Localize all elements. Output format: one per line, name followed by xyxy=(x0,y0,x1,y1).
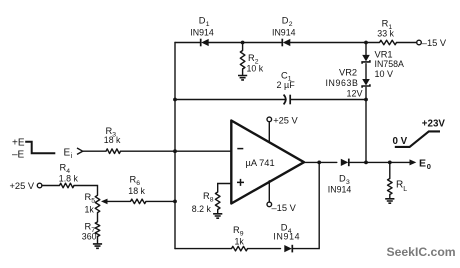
node wiper feedback xyxy=(173,200,177,204)
wire non-inverting input to R8 xyxy=(218,184,232,214)
Ei source arrow xyxy=(77,148,83,154)
svg-text:D: D xyxy=(199,16,206,26)
node summing input xyxy=(173,149,177,153)
svg-text:10 V: 10 V xyxy=(375,69,394,79)
wire wiper to R6 to bus xyxy=(106,200,175,202)
ground below R8 xyxy=(213,214,222,218)
svg-text:1.8 k: 1.8 k xyxy=(59,173,79,183)
svg-text:R: R xyxy=(396,179,403,190)
label +23V xyxy=(422,118,446,129)
resistor R6 18k xyxy=(131,199,147,204)
op-amp plus input sign xyxy=(237,179,244,186)
label Ei xyxy=(64,147,73,160)
svg-text:+25 V: +25 V xyxy=(273,115,298,125)
svg-text:8: 8 xyxy=(210,197,214,204)
svg-text:+23V: +23V xyxy=(422,118,446,129)
label C1 2uF xyxy=(277,70,296,90)
label R5 1k xyxy=(85,192,96,215)
svg-text:18 k: 18 k xyxy=(104,135,121,145)
svg-text:VR1: VR1 xyxy=(375,49,393,59)
ground below RL xyxy=(385,199,394,203)
svg-text:+E: +E xyxy=(12,137,25,148)
wire R1 to -15V xyxy=(366,42,417,44)
resistor R7 360 xyxy=(95,222,100,237)
wire op-amp output line to Eo xyxy=(304,161,412,163)
svg-text:18 k: 18 k xyxy=(128,186,145,196)
label op-amp -15V xyxy=(272,203,297,213)
capacitor C1 2uF xyxy=(284,95,286,105)
label R4 1.8k xyxy=(59,162,79,183)
label VR1 xyxy=(375,49,404,79)
svg-text:2 µF: 2 µF xyxy=(277,80,296,90)
wire op-amp -15V supply lead xyxy=(268,181,270,202)
svg-text:0: 0 xyxy=(427,162,431,171)
ground below R2 xyxy=(238,76,247,80)
svg-text:1k: 1k xyxy=(235,236,245,246)
label +25V left xyxy=(10,181,35,191)
svg-text:8.2 k: 8.2 k xyxy=(192,204,212,214)
label uA741 xyxy=(246,158,275,168)
resistor RL load xyxy=(388,179,393,195)
wire zener column xyxy=(365,43,367,163)
diode D3 1N914 xyxy=(341,159,349,166)
wire Ei input to inverting input xyxy=(83,150,232,152)
svg-text:D: D xyxy=(339,173,346,183)
node R2 top xyxy=(241,41,245,45)
wire left summing bus xyxy=(174,43,176,249)
terminal -15V right of R1 xyxy=(417,40,422,45)
diode D4 1N914 xyxy=(284,245,292,252)
terminal op-amp +25V xyxy=(267,117,272,122)
resistor R8 8.2k xyxy=(215,192,220,210)
label R2 10k xyxy=(247,53,264,74)
svg-text:IN914: IN914 xyxy=(328,184,352,194)
label +E xyxy=(12,137,25,148)
terminal op-amp -15V xyxy=(267,202,272,207)
svg-text:E: E xyxy=(64,147,71,158)
ground below R7 xyxy=(93,244,102,248)
label R7 360 xyxy=(82,222,97,242)
svg-text:–15 V: –15 V xyxy=(272,203,297,213)
diode D1 1N914 xyxy=(201,39,209,46)
label Eo xyxy=(419,157,431,171)
svg-text:IN914: IN914 xyxy=(190,27,214,37)
Eo output arrowhead xyxy=(410,159,417,165)
node RL output xyxy=(388,161,392,165)
label D4 xyxy=(273,223,300,242)
zener diode VR2 1N963B xyxy=(362,79,370,86)
label R9 1k xyxy=(233,225,244,247)
label VR2 xyxy=(326,68,363,99)
svg-text:D: D xyxy=(282,16,289,26)
svg-text:–15 V: –15 V xyxy=(422,38,447,48)
wire top feedback line xyxy=(175,42,366,44)
R5 wiper arrow xyxy=(101,199,108,205)
svg-text:+25 V: +25 V xyxy=(10,181,35,191)
wire bottom feedback R9 D4 xyxy=(175,162,319,248)
node C1 right xyxy=(364,98,368,102)
op-amp minus input sign xyxy=(237,148,243,150)
svg-text:L: L xyxy=(403,186,407,193)
label D3 xyxy=(328,173,352,194)
label -15V right xyxy=(422,38,447,48)
resistor R1 33k xyxy=(380,40,397,45)
label R1 33k xyxy=(377,19,394,39)
resistor R5 1k potentiometer xyxy=(95,195,100,212)
resistor R2 10k xyxy=(240,51,245,70)
svg-text:–E: –E xyxy=(12,149,25,160)
zener diode VR1 1N758A xyxy=(362,55,370,62)
wire R5-R7 column xyxy=(97,213,99,244)
svg-text:E: E xyxy=(419,157,426,169)
resistor R4 1.8k xyxy=(60,183,75,188)
label D1 xyxy=(190,16,214,38)
svg-text:µA 741: µA 741 xyxy=(246,158,275,168)
svg-text:IN914: IN914 xyxy=(272,27,296,37)
diode D2 1N914 xyxy=(283,39,291,46)
label D2 xyxy=(272,16,296,38)
label R6 18k xyxy=(128,174,145,195)
output ramp waveform 0V to +23V xyxy=(395,131,440,147)
label 0V xyxy=(393,136,408,147)
terminal +25V supply left xyxy=(37,183,42,188)
svg-text:IN758A: IN758A xyxy=(375,59,404,69)
svg-text:33 k: 33 k xyxy=(377,28,394,38)
node C1 left xyxy=(173,98,177,102)
svg-text:IN914: IN914 xyxy=(273,232,300,242)
svg-text:12V: 12V xyxy=(347,89,363,99)
resistor R9 1k xyxy=(232,246,248,251)
resistor R3 18k xyxy=(106,149,121,154)
svg-text:VR2: VR2 xyxy=(339,68,357,78)
svg-text:10 k: 10 k xyxy=(247,64,264,74)
svg-text:0 V: 0 V xyxy=(393,136,408,147)
op-amp U1 uA741 xyxy=(231,121,304,204)
node output D4 branch xyxy=(317,161,321,165)
svg-text:IN963B: IN963B xyxy=(326,78,359,88)
svg-text:1k: 1k xyxy=(85,205,95,215)
node zener column bottom xyxy=(364,161,368,165)
svg-text:360: 360 xyxy=(82,231,97,241)
label RL xyxy=(396,179,407,192)
svg-text:5: 5 xyxy=(91,198,95,205)
svg-text:SeekIC.com: SeekIC.com xyxy=(387,245,456,259)
wire +25V to R4 to R5 xyxy=(42,186,98,196)
label R8 8.2k xyxy=(192,191,214,214)
wire RL from output line to ground xyxy=(389,162,391,198)
label -E xyxy=(12,149,25,160)
label R3 18k xyxy=(104,126,121,145)
wire op-amp +25V supply lead xyxy=(268,122,270,142)
wire C1 feedback line xyxy=(175,99,366,101)
input step waveform +E/-E xyxy=(25,142,55,153)
label op-amp +25V xyxy=(273,115,298,125)
node zener column top xyxy=(364,41,368,45)
wire R2 from top line to ground xyxy=(242,43,244,75)
